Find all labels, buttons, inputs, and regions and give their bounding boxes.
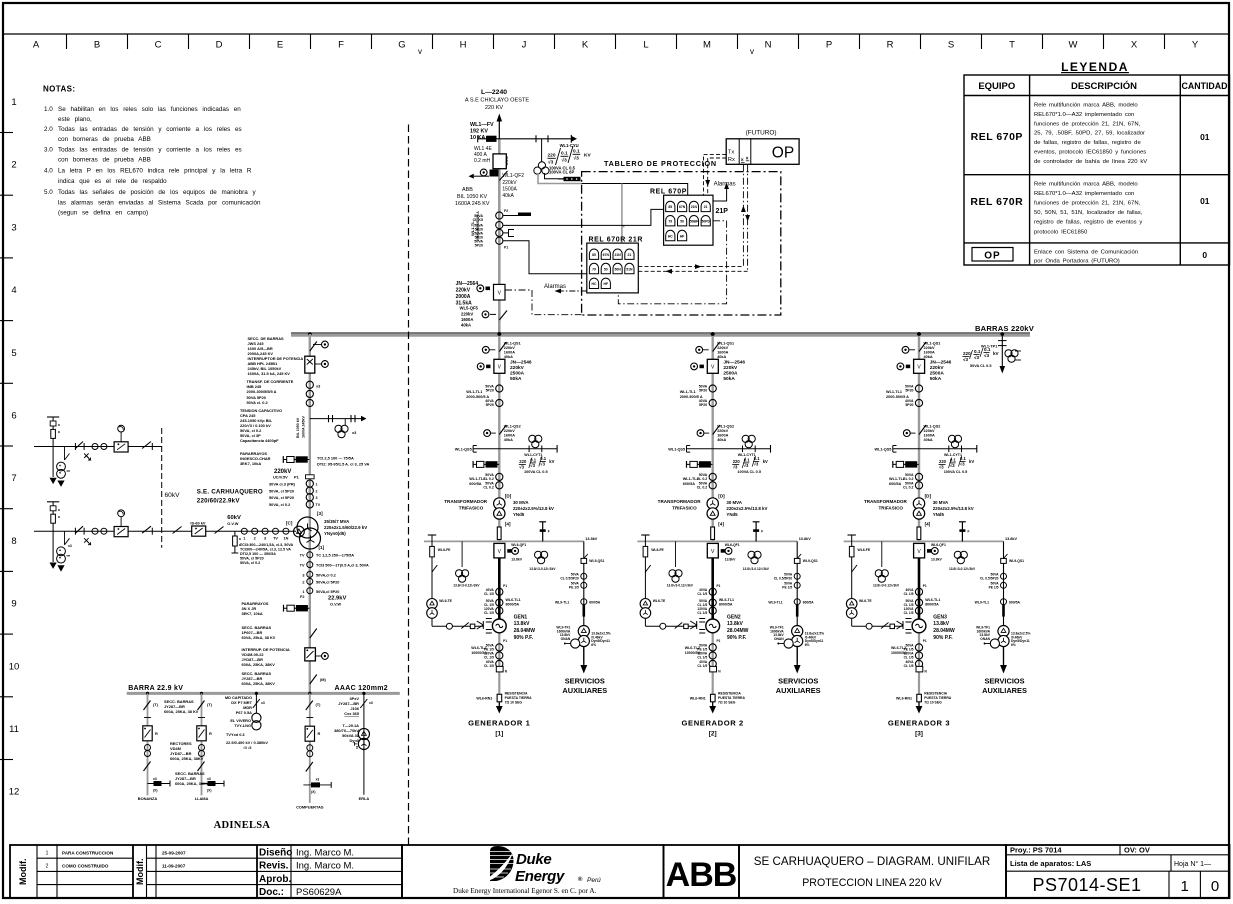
fence dashed boundary [161,428,163,548]
svg-text:REL670*1.0—A32 implementado co: REL670*1.0—A32 implementado con [1034,112,1134,118]
svg-text:P1: P1 [294,475,300,480]
svg-text:600A, 25KA, 38KV: 600A, 25KA, 38KV [175,781,209,786]
svg-text:por Onda Portadora (FUTURO): por Onda Portadora (FUTURO) [1034,259,1120,265]
svg-text:Modif.: Modif. [135,859,145,886]
svg-text:K: K [582,40,589,51]
capacitive VT branch [310,415,367,438]
svg-text:R: R [887,40,894,51]
svg-text:PROTECCION LINEA 220 kV: PROTECCION LINEA 220 kV [802,877,942,889]
svg-text:SE CARHUAQUERO – DIAGRAM. UNIF: SE CARHUAQUERO – DIAGRAM. UNIFILAR [754,855,990,868]
svg-text:Dyn5: Dyn5 [349,738,359,743]
svg-text:3EK7, 10kA: 3EK7, 10kA [240,461,261,466]
svg-text:TV: TV [316,503,321,507]
svg-text:220/60/22.9kV: 220/60/22.9kV [197,498,241,505]
svg-text:ABB: ABB [462,187,473,193]
svg-text:TCI.2,5 100 — 75/5A: TCI.2,5 100 — 75/5A [317,456,354,461]
svg-text:3.0: 3.0 [44,147,53,154]
svg-text:50VA, cl 5P20: 50VA, cl 5P20 [269,495,294,500]
svg-text:WL1-CYU: WL1-CYU [560,143,579,148]
svg-text:ADINELSA: ADINELSA [214,820,271,831]
svg-text:(T): (T) [316,702,322,707]
svg-text:L—2240: L—2240 [481,89,507,96]
dashed signal wires REL670R to OP [638,267,747,272]
svg-text:TV: TV [300,554,305,558]
svg-text:220±2x1.5/60/22.9 kV: 220±2x1.5/60/22.9 kV [324,525,367,530]
svg-text:79: 79 [668,220,672,224]
svg-text:de fallas, registro de fallas,: de fallas, registro de fallas, registro … [1034,140,1141,146]
disconnector SECC. DE BARRAS [310,341,329,351]
svg-text:v: v [418,47,422,56]
generator G3 labels [888,615,950,738]
feeder LLAMA [195,693,224,801]
svg-text:[2]: [2] [709,731,717,738]
svg-text:E: E [277,40,283,51]
svg-text:WL5-QF5: WL5-QF5 [460,306,479,311]
svg-text:PS7014-SE1: PS7014-SE1 [1032,875,1141,895]
svg-text:EQUIPO: EQUIPO [978,81,1015,92]
svg-text:S.E. CARHUAQUERO: S.E. CARHUAQUERO [197,489,263,496]
dash-dot wires OP to REL670R links [743,164,747,271]
svg-text:a: a [58,430,60,434]
svg-text:50: 50 [680,220,684,224]
svg-text:√3: √3 [963,357,969,362]
svg-text:Rx: Rx [728,157,735,163]
svg-text:G: G [398,40,405,51]
svg-text:4.0: 4.0 [44,168,53,175]
svg-text:21: 21 [704,205,708,209]
svg-text:Duke: Duke [516,851,551,868]
svg-text:11-09-2007: 11-09-2007 [162,864,186,869]
svg-text:TCI3:300—240/1,5A, cl.3, 50VA: TCI3:300—240/1,5A, cl.3, 50VA [240,543,294,547]
svg-text:AAAC 120mm2: AAAC 120mm2 [335,685,389,692]
svg-text:con borneras de prueba ABB: con borneras de prueba ABB [58,136,151,143]
svg-text:2000-300/5/5/5 A: 2000-300/5/5/5 A [247,389,277,394]
svg-text:2: 2 [11,160,16,171]
node L-2240 label [465,89,530,111]
svg-text:a: a [239,537,241,541]
svg-text:4: 4 [11,285,16,296]
svg-text:2: 2 [46,864,49,870]
OP legend symbol [972,248,1013,262]
svg-text:50VA,cl 5P20: 50VA,cl 5P20 [316,590,339,594]
svg-text:P2: P2 [504,209,508,213]
top ruler ticks [67,34,1165,49]
feeder ERLA [334,693,373,801]
svg-text:2.0: 2.0 [44,126,53,133]
svg-text:600A, 25KA, 38KV: 600A, 25KA, 38KV [242,681,276,686]
svg-text:2: 2 [254,537,256,541]
svg-text:0: 0 [1202,250,1207,260]
disconnector 60kV right [215,527,224,534]
svg-text:TVY-LNG: TVY-LNG [234,723,251,728]
svg-text:79: 79 [592,267,596,271]
wire CT1 tap [503,215,531,217]
svg-text:REL 670P: REL 670P [971,131,1023,143]
svg-text:3EK7, 10kA: 3EK7, 10kA [242,611,263,616]
svg-text:DTI2,5 100 — 350/5A: DTI2,5 100 — 350/5A [240,552,276,556]
svg-text:[3]: [3] [915,731,923,738]
svg-text:Alarmas: Alarmas [544,284,566,290]
svg-text:50VA, cl 5P20: 50VA, cl 5P20 [269,489,294,494]
svg-text:ERLA: ERLA [359,796,370,801]
bus VT bay [963,334,1022,374]
left ruler numbers and ticks [9,97,20,798]
svg-text:220: 220 [548,153,556,159]
svg-text:1: 1 [316,483,318,487]
svg-text:Se habilitan en los reles solo: Se habilitan en los reles solo las funci… [58,106,241,113]
60kV line 2 wire [34,530,233,532]
svg-text:funciones de protección 21, 21: funciones de protección 21, 21N, 67N, [1034,121,1141,127]
svg-text:a: a [58,515,60,519]
svg-text:WL1—FV: WL1—FV [470,122,494,128]
svg-text:GENERADOR 1: GENERADOR 1 [468,719,530,728]
svg-text:1: 1 [11,97,16,108]
notes text block [43,85,261,217]
svg-text:01: 01 [1200,132,1210,142]
svg-text:Diseño: Diseño [259,848,292,859]
feeder COMPUERTAS [296,693,331,809]
svg-text:PARA CONSTRUCCION: PARA CONSTRUCCION [62,851,114,856]
middle text labels between feeders [164,699,209,786]
three-winding transformer S.E. CARHUAQUERO [294,517,321,549]
60kV feeder line 2 equipment [47,502,152,572]
svg-text:Enlace con Sistema de Comunica: Enlace con Sistema de Comunicación [1034,250,1138,256]
svg-text:25, 79, .50BF, 50PD, 27, 59, l: 25, 79, .50BF, 50PD, 27, 59, localizador [1034,131,1145,137]
dash-dot link REL670P to REL670R (futuro) [618,221,726,304]
generator bay 3 [844,332,1031,713]
svg-text:5.0: 5.0 [44,189,53,196]
svg-text:25-09-2007: 25-09-2007 [162,851,186,856]
svg-text:YNyn0(d5): YNyn0(d5) [324,531,346,536]
svg-text:600A, 25KA, 38KV: 600A, 25KA, 38KV [170,756,204,761]
svg-text:600A, 25KA, 38KV: 600A, 25KA, 38KV [242,662,276,667]
legend table [964,60,1230,265]
svg-text:WL1-QF2: WL1-QF2 [502,173,524,179]
svg-text:9: 9 [11,599,16,610]
disconnector to bus [310,675,317,685]
svg-text:(segun se defina en campo): (segun se defina en campo) [58,210,148,217]
svg-text:51N: 51N [626,267,633,271]
svg-text:HC: HC [592,282,597,286]
svg-text:Y: Y [1192,40,1199,51]
svg-text:40kA: 40kA [461,323,471,328]
svg-text:Duke Energy International Egen: Duke Energy International Egenor S. en C… [453,887,597,895]
svg-text:1: 1 [1181,878,1189,895]
svg-text:A: A [33,40,40,51]
svg-text:N: N [765,40,772,51]
svg-text:100VA CL 6P: 100VA CL 6P [549,170,574,175]
svg-text:192 KV: 192 KV [470,129,488,135]
circuit breaker 22.9 [305,648,329,661]
svg-text:COMO CONSTRUIDO: COMO CONSTRUIDO [62,864,109,869]
ownership dashed separator [408,125,410,846]
svg-text:[1]: [1] [319,545,325,550]
svg-text:50N: 50N [614,267,621,271]
svg-text:LLAMA: LLAMA [195,796,209,801]
earthing switch [75,442,90,461]
svg-text:1: 1 [243,537,245,541]
CVT WL1-CYU [534,139,592,181]
svg-text:30VA cl.3 (PR): 30VA cl.3 (PR) [269,482,296,487]
wire CVT secondary to relays [538,173,582,184]
generator bay 2 [637,332,824,713]
line relay box [114,425,128,452]
svg-text:BARRAS 220kV: BARRAS 220kV [975,324,1035,333]
svg-text:7: 7 [11,473,16,484]
svg-text:Todas las señales de posición: Todas las señales de posición de los equ… [58,189,257,196]
svg-text:√3: √3 [562,158,568,164]
CT string 60kV [283,528,289,534]
svg-text:TV: TV [273,537,278,541]
CT stack below transformer [307,552,313,558]
svg-text:5P20: 5P20 [475,244,483,248]
svg-text:60VA, 25kA, 38 KV: 60VA, 25kA, 38 KV [242,635,276,640]
svg-text:Energy: Energy [515,868,565,885]
svg-text:10: 10 [9,661,20,672]
svg-text:OV: OV: OV: OV [1124,846,1150,855]
svg-text:P: P [826,40,832,51]
svg-text:50VA, cl 5P20: 50VA, cl 5P20 [240,557,264,561]
svg-text:funciones de protección 21, 21: funciones de protección 21, 21N, 67N, [1034,201,1141,207]
Duke Energy logo [453,846,601,895]
svg-text:OP: OP [984,251,1000,262]
svg-text:(T): (T) [207,702,213,707]
wire: incoming line vertical [498,121,500,139]
svg-text:A S.E CHICLAYO OESTE: A S.E CHICLAYO OESTE [465,98,530,104]
svg-text:Rele multifunción marca ABB, m: Rele multifunción marca ABB, modelo [1034,181,1138,187]
svg-text:R: R [209,731,212,736]
svg-text:REL 670R: REL 670R [970,196,1023,208]
svg-text:6: 6 [11,411,16,422]
svg-text:Doc.:: Doc.: [259,887,284,898]
svg-text:NOTAS:: NOTAS: [43,85,75,94]
svg-text:R: R [155,731,158,736]
svg-text:x3: x3 [369,701,373,705]
svg-text:GEN3: GEN3 [933,615,947,621]
svg-text:ABB: ABB [666,856,737,894]
svg-text:0.2 mH: 0.2 mH [474,158,491,164]
svg-text:REL 670P: REL 670P [650,189,687,196]
svg-text:220 KV: 220 KV [485,105,504,111]
svg-text:Perú: Perú [587,877,601,884]
svg-text:HF: HF [604,282,609,286]
svg-text:21N: 21N [691,205,698,209]
line PT branch [57,447,70,487]
svg-text:Cxx 365: Cxx 365 [344,711,360,716]
svg-text:indica que es el rele de respa: indica que es el rele de respaldo [58,178,167,185]
disconnector WL1-QF2 with motor [469,169,508,180]
svg-text:v: v [750,47,754,56]
svg-text:35/35/7 MVA: 35/35/7 MVA [324,519,350,524]
svg-text:600A, 25KA, 38 KV: 600A, 25KA, 38 KV [164,709,199,714]
svg-text:2000A: 2000A [456,294,471,300]
svg-text:Hoja N° 1—: Hoja N° 1— [1174,860,1211,868]
svg-text:a: a [239,543,241,547]
svg-text:J: J [522,40,527,51]
line disconnector [142,442,151,449]
svg-text:21N: 21N [614,253,621,257]
disconnector 60kV left [173,527,182,534]
svg-text:1N: 1N [283,537,288,541]
svg-text:las alarmas serán enviadas al: las alarmas serán enviadas al Sistema Sc… [58,200,261,207]
svg-text:W: W [1069,40,1078,51]
svg-text:Alarmas: Alarmas [714,182,736,188]
svg-text:1.0: 1.0 [44,106,53,113]
svg-text:(M): (M) [320,677,327,682]
svg-text:01: 01 [1200,196,1210,206]
svg-text:67N: 67N [679,205,686,209]
bushing CTs [92,444,98,450]
svg-text:a: a [58,508,60,512]
svg-text:85: 85 [592,253,596,257]
svg-text:Rele multifunción marca ABB, m: Rele multifunción marca ABB, modelo [1034,103,1138,109]
svg-text:S: S [948,40,954,51]
svg-text:12: 12 [9,787,20,798]
svg-text:1500A: 1500A [502,187,517,193]
svg-text:BARRA 22.9 kV: BARRA 22.9 kV [128,685,183,692]
svg-text:21: 21 [628,253,632,257]
svg-text:T: T [1009,40,1015,51]
svg-text:1600A 245kV: 1600A 245kV [302,416,306,438]
svg-text:2: 2 [302,581,304,585]
svg-text:GEN1: GEN1 [514,615,528,621]
60kV line 1 wire (to ADINELSA) [34,446,162,448]
svg-text:P67 0.5A: P67 0.5A [236,710,252,715]
svg-text:50, 50N, 51, 51N, localizador: 50, 50N, 51, 51N, localizador de fallas, [1034,210,1143,216]
svg-text:Todas las entradas de tensión: Todas las entradas de tensión y corrient… [58,147,242,154]
svg-text:√3: √3 [974,355,980,360]
svg-text:con borneras de prueba ABB: con borneras de prueba ABB [58,157,151,164]
svg-text:O.V.W: O.V.W [227,521,238,526]
svg-text:TVYxd 0.3: TVYxd 0.3 [226,732,245,737]
svg-text:de controlador de bahía de lín: de controlador de bahía de línea 220 kV [1034,159,1147,165]
wire CT2 tap to REL670P [503,209,663,225]
svg-text:TABLERO DE PROTECCION: TABLERO DE PROTECCION [604,159,717,168]
feeder BONANZA [138,693,170,801]
svg-text:85: 85 [668,205,672,209]
svg-text:Todas las entradas de tensión: Todas las entradas de tensión y corrient… [58,126,242,133]
svg-text:LEYENDA: LEYENDA [1061,60,1129,74]
arrester at 60kV terminal [232,531,242,553]
svg-text:CANTIDAD: CANTIDAD [1182,81,1228,91]
svg-text:Modif.: Modif. [18,859,28,886]
svg-text:1600A, 31.5 kA, 245 KV: 1600A, 31.5 kA, 245 KV [248,371,291,376]
svg-text:WL1-TL: WL1-TL [470,221,475,236]
svg-text:PS60629A: PS60629A [296,887,342,898]
svg-text:H: H [460,40,467,51]
svg-text:O.V.W: O.V.W [330,602,341,607]
svg-text:[3]: [3] [317,511,323,516]
wire: transformer bay vertical 220kV [309,334,311,693]
svg-text:(X): (X) [153,789,158,793]
svg-text:(X): (X) [207,789,212,793]
svg-text:60kV: 60kV [165,492,181,499]
CT group WL1-TL [470,209,508,250]
svg-text:Proy.: PS 7014: Proy.: PS 7014 [1010,846,1062,855]
dash-dot link JN-2564 to panel [505,290,582,315]
svg-text:eventos, protocolo IEC61850 y: eventos, protocolo IEC61850 y funciones [1034,150,1146,156]
feeder EL VIVERO [225,693,269,750]
busbar BARRAS 220kV [291,324,1035,336]
svg-text:HF: HF [680,234,685,238]
svg-text:Ing. Marco M.: Ing. Marco M. [296,861,354,872]
wire CT4 tap to REL670R [503,241,587,274]
svg-text:(FUTURO): (FUTURO) [746,130,777,137]
svg-text:50: 50 [604,267,608,271]
svg-text:BONANZA: BONANZA [138,796,158,801]
svg-text:√3: √3 [984,353,990,358]
svg-text:KV: KV [584,153,591,159]
svg-text:C: C [155,40,162,51]
svg-text:11: 11 [9,724,19,735]
svg-text:P1: P1 [504,246,508,250]
60kV feeder line 1 equipment [47,417,152,487]
svg-text:TCI3 500—1T(0.5 A,cl 3, 50VA: TCI3 500—1T(0.5 A,cl 3, 50VA [316,564,369,568]
svg-text:50VA cl. 0.2: 50VA cl. 0.2 [247,400,269,405]
svg-text:220kV: 220kV [456,288,471,294]
generator G2 labels [682,615,744,738]
svg-text:5: 5 [11,348,16,359]
svg-text:0.1: 0.1 [573,149,580,155]
svg-text:√3: √3 [574,156,580,162]
svg-text:M: M [703,40,711,51]
svg-text:2000-400/5/5/5/5 A: 2000-400/5/5/5/5 A [476,211,480,241]
svg-text:COMPUERTAS: COMPUERTAS [296,805,324,810]
svg-text:x3: x3 [68,544,72,548]
svg-text:B: B [94,40,100,51]
svg-text:DTI2: 95-95/1.5 A. cl 3, 25 VA: DTI2: 95-95/1.5 A. cl 3, 25 VA [317,462,370,467]
svg-text:50VA,cl 0.2: 50VA,cl 0.2 [316,574,336,578]
svg-text:0: 0 [1211,878,1219,895]
wire VT secondary to REL670R (gray with jump) [622,184,625,244]
svg-text:registro de fallas, registro d: registro de fallas, registro de eventos … [1034,220,1142,226]
svg-text:Capacitancia 4400pF: Capacitancia 4400pF [240,438,279,443]
generator G1 labels [468,615,530,738]
svg-text:GEN2: GEN2 [727,615,741,621]
teleprotection dashed wires OP-REL670P [704,154,727,195]
svg-text:220kV: 220kV [502,180,517,186]
svg-text:REL 670R 21R: REL 670R 21R [589,237,644,244]
wire 60kV tertiary [233,530,296,532]
circuit breaker HPL 245 [305,356,329,373]
svg-text:3: 3 [11,222,16,233]
svg-text:este plano,: este plano, [58,116,92,123]
svg-text:DESCRIPCIÓN: DESCRIPCIÓN [1071,80,1137,92]
svg-text:Lista de aparatos: LAS: Lista de aparatos: LAS [1010,859,1091,868]
svg-text:40kA: 40kA [502,193,514,199]
svg-text:OP: OP [772,145,794,162]
CT3 stub [503,230,514,237]
svg-text:Tx: Tx [728,150,735,156]
svg-text:3: 3 [264,537,266,541]
svg-text:GENERADOR 3: GENERADOR 3 [888,719,950,728]
surge arrester + earth [47,417,60,484]
svg-text:L: L [643,40,648,51]
svg-text:UC/V.5V: UC/V.5V [273,475,288,480]
svg-text:22.9/0.400 kV / 0.380kV: 22.9/0.400 kV / 0.380kV [226,740,268,745]
svg-text:BIL 1050 KV: BIL 1050 KV [457,194,487,200]
svg-text:0.1: 0.1 [974,349,981,354]
svg-text:√3 √3: √3 √3 [243,746,252,750]
svg-text:D: D [216,40,223,51]
svg-text:1600A 245 KV: 1600A 245 KV [455,201,490,207]
generator bay 1 [424,332,611,713]
svg-text:21P: 21P [716,208,729,215]
svg-text:50BF: 50BF [690,220,698,224]
svg-text:8: 8 [11,536,16,547]
surge arrester 22.9 [284,605,310,612]
svg-text:X: X [1131,40,1138,51]
